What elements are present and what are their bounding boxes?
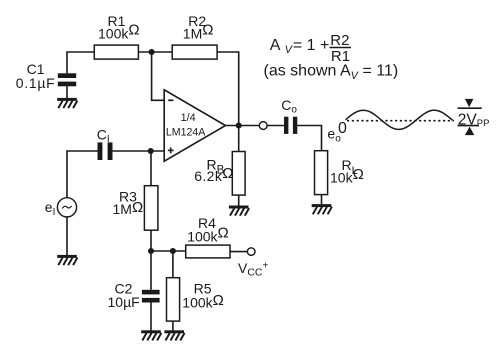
wire R3 to bottom rail	[150, 230, 152, 251]
label op-amp 1/4 LM124A	[166, 112, 206, 139]
label R_L	[330, 157, 364, 186]
capacitor C_I	[98, 142, 113, 160]
svg-text:100kΩ: 100kΩ	[182, 292, 224, 310]
label C1	[16, 61, 56, 91]
source e_i	[57, 198, 76, 217]
waveform sine	[346, 110, 453, 129]
svg-text:LM124A: LM124A	[166, 127, 206, 139]
resistor R_B	[232, 152, 245, 196]
wire R_B to ground	[238, 195, 240, 206]
node junction +input/R3	[148, 148, 154, 154]
node junction R5	[170, 248, 176, 254]
svg-text:10µF: 10µF	[108, 294, 140, 310]
svg-text:R2: R2	[330, 32, 349, 49]
resistor R3	[144, 186, 158, 231]
wire R1 to R2	[138, 51, 172, 53]
ground C2	[141, 330, 161, 340]
wire e_i to ground	[66, 217, 68, 255]
resistor R2	[172, 45, 217, 59]
svg-text:(as shown AV = 11): (as shown AV = 11)	[264, 63, 399, 82]
minus input mark	[168, 99, 173, 101]
wire R3 vertical	[150, 151, 152, 186]
wire C2 vertical	[150, 251, 152, 290]
svg-text:1/4: 1/4	[181, 112, 196, 124]
ground R5	[164, 330, 184, 340]
label R1	[98, 13, 140, 42]
annotation arrow up	[465, 127, 474, 136]
op-amp U1	[164, 90, 225, 161]
wire R2 to output node	[217, 52, 239, 126]
svg-text:6.2kΩ: 6.2kΩ	[194, 165, 234, 184]
wire R4 to Vcc terminal	[230, 251, 248, 253]
label C2	[108, 281, 140, 311]
wire R5 to ground	[172, 321, 174, 330]
capacitor C_o	[284, 117, 297, 134]
wire C_o to R_L	[297, 126, 321, 151]
wire top rail left to R1	[67, 52, 94, 73]
wire op-amp output	[226, 125, 260, 127]
label R5	[182, 281, 224, 311]
label R2	[183, 13, 214, 42]
ground e_i	[57, 255, 77, 265]
wire R5 vertical	[172, 251, 174, 278]
capacitor C1	[58, 73, 76, 98]
resistor R5	[167, 278, 180, 321]
label R_B	[194, 157, 234, 185]
svg-text:= 1 +: = 1 +	[293, 37, 329, 54]
svg-text:1MΩ: 1MΩ	[113, 199, 144, 217]
svg-text:0: 0	[338, 120, 347, 137]
label R3	[113, 189, 144, 217]
node junction R1/R2/inverting	[149, 49, 155, 55]
resistor R1	[94, 45, 138, 59]
annotation 2Vpp bottom bar	[458, 125, 479, 127]
wire R_L to ground	[321, 195, 323, 205]
wire terminal to C_o	[267, 125, 284, 127]
resistor R4	[186, 245, 230, 258]
waveform zero axis dotted	[347, 120, 454, 122]
svg-text:0.1µF: 0.1µF	[16, 75, 56, 91]
formula Av = 1 + R2/R1	[270, 32, 350, 65]
node output junction	[236, 122, 242, 128]
ground R_L	[312, 204, 332, 214]
wire e_i to C_I	[67, 151, 98, 198]
wire C_I to noninverting input	[113, 150, 165, 152]
wire inverting input	[152, 52, 165, 100]
terminal output	[259, 122, 267, 130]
terminal Vcc	[247, 248, 255, 256]
wire bottom rail	[151, 250, 186, 252]
ground R_B	[229, 206, 249, 216]
label R4	[187, 215, 229, 244]
capacitor C2	[142, 290, 160, 331]
formula fraction bar	[330, 47, 352, 49]
resistor R_L	[315, 151, 328, 195]
plus input mark	[168, 148, 174, 154]
annotation 2Vpp top bar	[458, 107, 482, 109]
ground C1	[57, 98, 77, 108]
svg-text:10kΩ: 10kΩ	[330, 166, 364, 186]
wire R_B vertical	[238, 126, 240, 152]
annotation arrow down	[465, 99, 474, 107]
node junction R3/C2	[148, 248, 154, 254]
svg-text:100kΩ: 100kΩ	[187, 225, 229, 245]
svg-text:A: A	[270, 37, 281, 54]
